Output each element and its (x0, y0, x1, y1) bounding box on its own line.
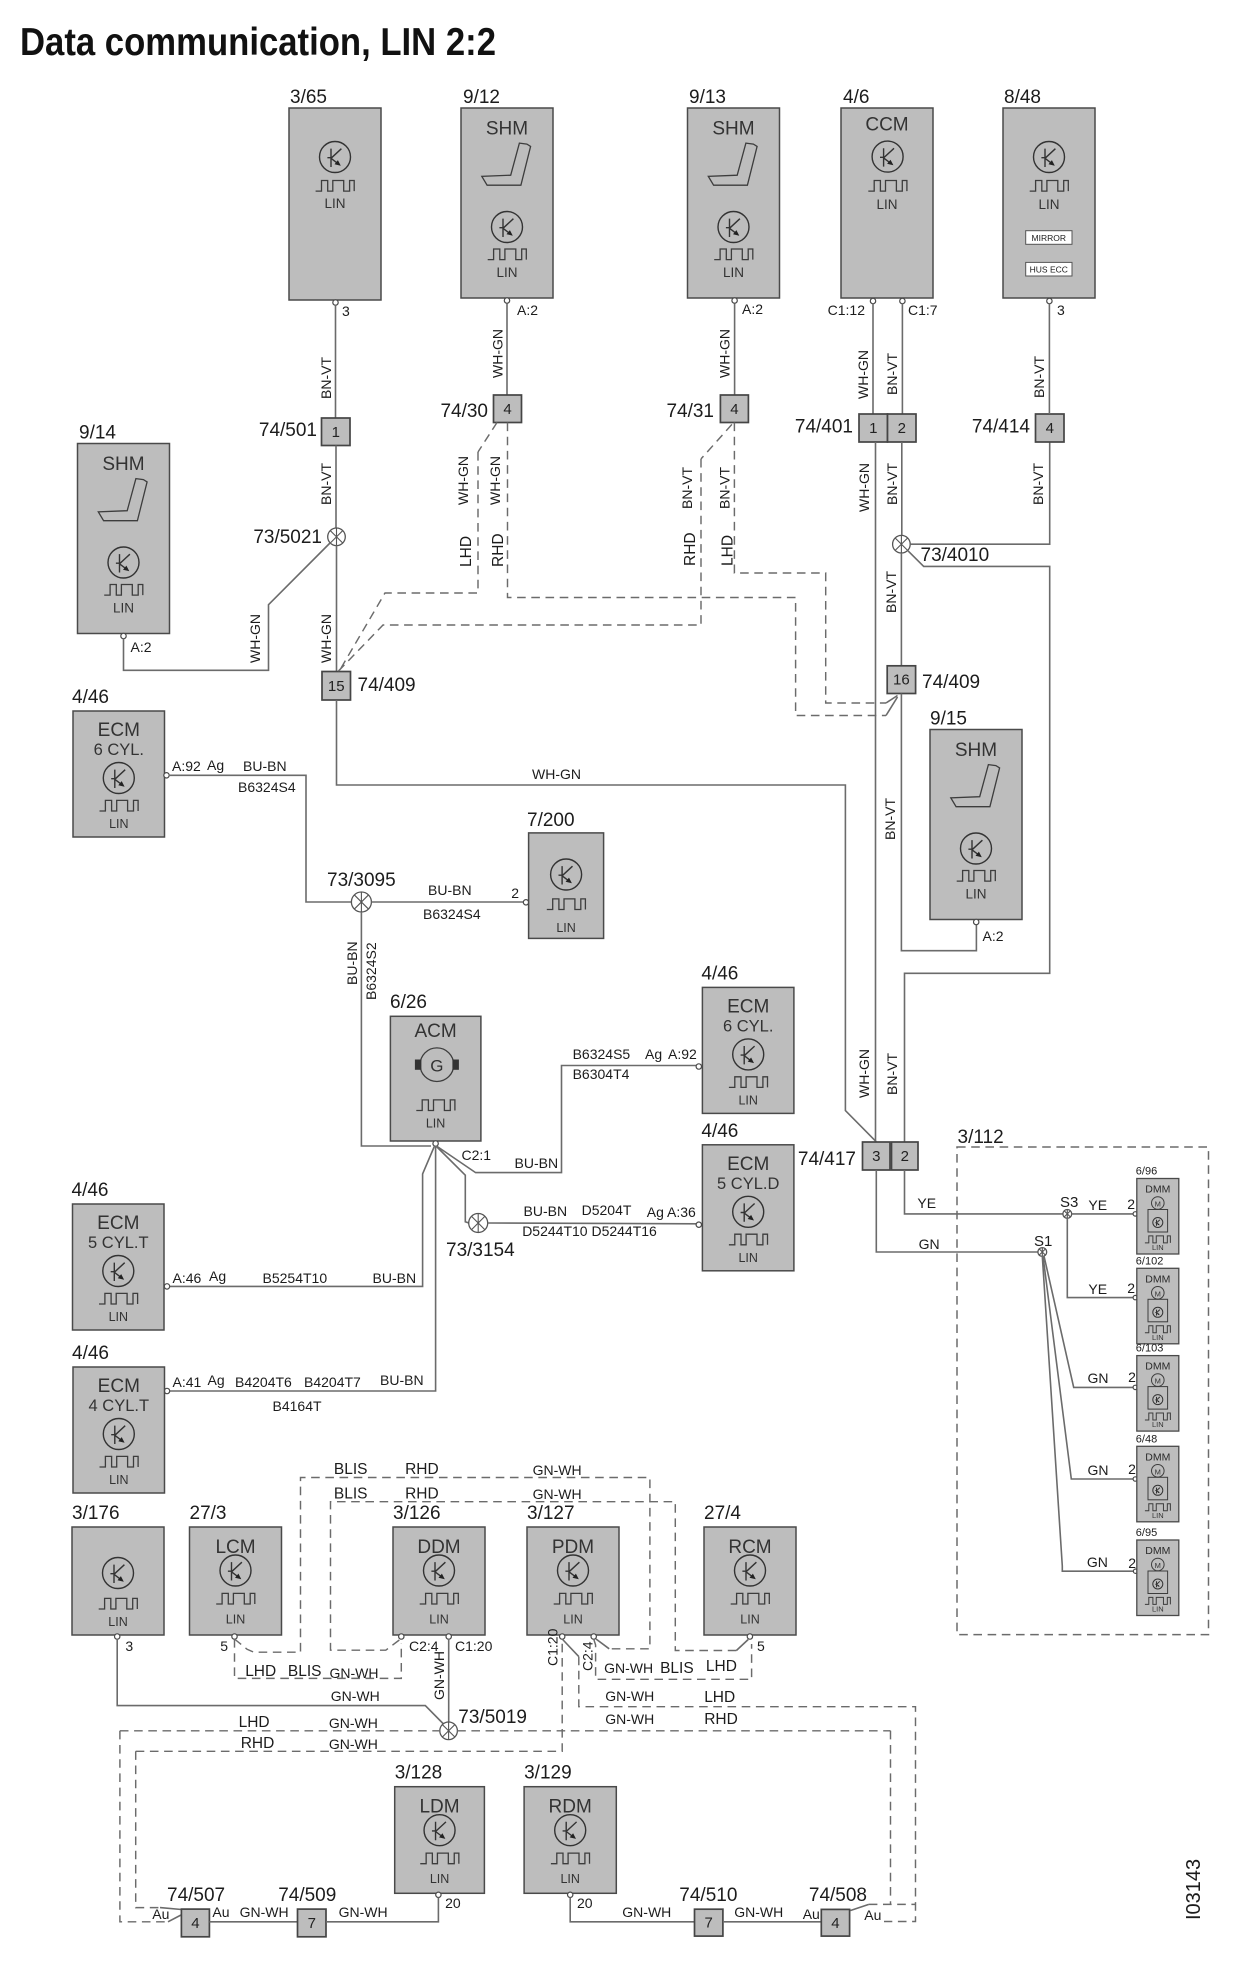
svg-text:GN-WH: GN-WH (605, 1688, 654, 1704)
svg-text:GN: GN (919, 1236, 940, 1252)
svg-text:ECM: ECM (727, 996, 769, 1017)
wire WH-GN from 9/13 A:2 to connector 74/31 (717, 301, 764, 395)
dashed wire RHD GN-WH lower-left row from 74/507 to PDM C1:20 (136, 1639, 563, 1752)
svg-text:74/409: 74/409 (358, 675, 416, 696)
dashed wire BLIS RHD GN-WH (upper row) LCM 5 to PDM C2:4 (235, 1461, 650, 1652)
svg-text:2: 2 (1128, 1555, 1136, 1571)
splice S3 (1060, 1194, 1078, 1218)
svg-text:Ag: Ag (207, 757, 224, 773)
svg-text:BN-VT: BN-VT (882, 798, 898, 840)
svg-text:73/3154: 73/3154 (446, 1240, 515, 1261)
svg-text:WH-GN: WH-GN (855, 350, 871, 399)
svg-text:4/46: 4/46 (72, 1180, 109, 1201)
svg-text:74/414: 74/414 (972, 417, 1031, 438)
module 3/129 RDM (524, 1763, 616, 1894)
svg-text:WH-GN: WH-GN (318, 614, 334, 663)
svg-text:2: 2 (1128, 1369, 1136, 1385)
svg-text:2: 2 (901, 1148, 909, 1165)
svg-text:BN-VT: BN-VT (1030, 463, 1046, 505)
wire GN-WH from 74/509 to LDM pin 20 (326, 1898, 438, 1922)
label Au right of 74/508 + leader (864, 1907, 881, 1923)
module 9/14 SHM (seat heating module) (78, 423, 170, 639)
svg-text:LHD: LHD (704, 1689, 735, 1706)
pins C2:4 and C1:20 of DDM (399, 1634, 493, 1654)
svg-text:DMM: DMM (1145, 1273, 1170, 1285)
svg-text:74/510: 74/510 (679, 1885, 737, 1906)
svg-text:BLIS: BLIS (660, 1660, 694, 1677)
svg-text:LIN: LIN (1152, 1333, 1164, 1342)
svg-text:9/12: 9/12 (463, 87, 500, 108)
svg-text:LIN: LIN (965, 887, 986, 902)
module 3/127 PDM (passenger door module) (527, 1503, 619, 1635)
dashed wire BN-VT RHD from 74/31 to 74/409 pin 15 (338, 424, 732, 671)
svg-text:B6324S2: B6324S2 (363, 942, 379, 1000)
wire GN S1 to DMM 6/48 (1043, 1256, 1138, 1481)
svg-text:2: 2 (511, 885, 519, 901)
svg-text:LIN: LIN (113, 601, 134, 616)
wire labels at ECM 4 CYL.T A:41 (173, 1372, 424, 1414)
wire WH-GN from 9/14 A:2 to splice 73/5021 (124, 543, 331, 671)
svg-text:M: M (1155, 1561, 1161, 1570)
svg-text:4/6: 4/6 (843, 87, 869, 108)
svg-text:A:2: A:2 (517, 302, 538, 318)
svg-text:16: 16 (893, 672, 910, 689)
svg-text:3/126: 3/126 (393, 1503, 441, 1524)
dashed wire BLIS RHD GN-WH (lower row) DDM C2:4 to RCM 5 (331, 1486, 749, 1651)
dashed wire GN-WH LHD upper-right row from PDM C1:20 to 74/508 (562, 1639, 915, 1922)
svg-text:G: G (430, 1057, 443, 1076)
svg-text:SHM: SHM (712, 119, 754, 140)
svg-text:74/417: 74/417 (798, 1149, 856, 1170)
module 6/96 DMM (door mirror module) (1136, 1166, 1179, 1255)
svg-text:9/14: 9/14 (79, 423, 116, 444)
svg-text:Ag: Ag (209, 1268, 226, 1284)
svg-text:4/46: 4/46 (701, 963, 738, 984)
svg-text:BN-VT: BN-VT (884, 353, 900, 395)
wire YE S3 to DMM 6/96 (1072, 1196, 1138, 1216)
svg-text:DMM: DMM (1145, 1361, 1170, 1373)
svg-text:BN-VT: BN-VT (884, 1053, 900, 1095)
svg-text:WH-GN: WH-GN (487, 456, 503, 505)
wire WH-GN from CCM C1:12 to 74/401 pin 1 (828, 302, 873, 414)
svg-text:ECM: ECM (97, 1213, 139, 1234)
module 6/48 DMM (1136, 1433, 1179, 1522)
splice 73/3095 (327, 870, 396, 912)
svg-text:BN-VT: BN-VT (1031, 356, 1047, 398)
svg-text:GN: GN (1088, 1370, 1109, 1386)
svg-text:DMM: DMM (1145, 1451, 1170, 1463)
svg-text:1: 1 (332, 424, 340, 441)
wire BU-BN splice 73/3095 down to ACM (344, 912, 431, 1146)
wire GN S1 to DMM 6/103 (1044, 1256, 1138, 1390)
svg-text:1: 1 (869, 420, 877, 437)
svg-text:GN-WH: GN-WH (533, 1486, 582, 1502)
svg-text:GN-WH: GN-WH (533, 1462, 582, 1478)
svg-text:GN-WH: GN-WH (331, 1688, 380, 1704)
svg-text:LIN: LIN (429, 1613, 448, 1627)
wire GN-WH from 74/510 to 74/508 (723, 1904, 821, 1922)
svg-text:20: 20 (445, 1895, 461, 1911)
svg-text:BU-BN: BU-BN (373, 1270, 417, 1286)
svg-text:BU-BN: BU-BN (344, 941, 360, 985)
svg-text:3/65: 3/65 (290, 87, 327, 108)
svg-text:7: 7 (705, 1915, 713, 1932)
svg-text:6 CYL.: 6 CYL. (723, 1017, 773, 1035)
svg-text:LHD: LHD (239, 1714, 270, 1731)
svg-text:BLIS: BLIS (334, 1461, 368, 1478)
svg-text:M: M (1155, 1200, 1161, 1209)
dashed boundary box 3/112 (957, 1127, 1209, 1635)
svg-text:LHD: LHD (458, 536, 475, 567)
pin 5 of LCM (220, 1634, 237, 1654)
svg-text:LIN: LIN (1152, 1243, 1164, 1252)
svg-text:SHM: SHM (102, 454, 144, 475)
svg-text:A:2: A:2 (131, 639, 152, 655)
wire from ACM to splice 73/3154 (436, 1146, 469, 1223)
module 4/46 ECM 6 CYL. (right) (701, 963, 794, 1113)
svg-text:4: 4 (503, 401, 511, 418)
svg-text:A:2: A:2 (742, 301, 763, 317)
svg-text:RHD: RHD (405, 1486, 439, 1503)
svg-text:HUS ECC: HUS ECC (1030, 265, 1068, 275)
svg-text:WH-GN: WH-GN (455, 456, 471, 505)
connector 74/30 pin 4 (440, 395, 521, 423)
dashed wire GN-WH BLIS LHD from PDM C2:4 to RCM 5 (594, 1639, 752, 1679)
wire GN-WH solid from DDM C1:20 to splice 73/5019 (431, 1639, 449, 1722)
svg-text:LIN: LIN (426, 1117, 445, 1131)
svg-text:B6324S4: B6324S4 (423, 906, 481, 922)
connector 74/507 pin 4 (167, 1885, 225, 1937)
connector 74/409 pin 16 (887, 666, 980, 694)
wire BN-VT splice 73/4010 to 74/414 pin 4 (910, 442, 1049, 544)
svg-text:LIN: LIN (556, 921, 575, 935)
svg-text:GN: GN (1088, 1462, 1109, 1478)
svg-text:5: 5 (757, 1638, 765, 1654)
svg-text:C1:7: C1:7 (908, 302, 938, 318)
svg-text:WH-GN: WH-GN (856, 463, 872, 512)
svg-text:LIN: LIN (876, 197, 897, 212)
svg-text:LIN: LIN (430, 1872, 449, 1886)
svg-text:GN-WH: GN-WH (339, 1904, 388, 1920)
svg-text:4 CYL.T: 4 CYL.T (89, 1397, 150, 1415)
module 3/176 (LIN node) (72, 1503, 164, 1635)
splice 73/3154 (446, 1214, 515, 1262)
svg-text:5 CYL.T: 5 CYL.T (88, 1234, 149, 1252)
svg-text:7: 7 (308, 1915, 316, 1932)
dashed wire LHD left leg down to 74/507 (120, 1731, 181, 1922)
svg-text:M: M (1155, 1289, 1161, 1298)
svg-text:GN-WH: GN-WH (240, 1904, 289, 1920)
svg-text:WH-GN: WH-GN (856, 1049, 872, 1098)
svg-text:2: 2 (1128, 1461, 1136, 1477)
wire BU-BN from ACM to ECM 4 CYL.T (164, 1146, 435, 1394)
svg-text:74/30: 74/30 (440, 401, 488, 422)
module 9/12 SHM (seat heating module) (461, 87, 553, 303)
svg-text:Au: Au (803, 1906, 820, 1922)
svg-text:LIN: LIN (496, 265, 517, 280)
svg-text:74/509: 74/509 (278, 1885, 336, 1906)
svg-text:Ag: Ag (208, 1372, 225, 1388)
svg-text:Au: Au (212, 1904, 229, 1920)
wire WH-GN splice 73/5021 to connector 74/409 pin 15 (318, 546, 337, 672)
svg-text:4/46: 4/46 (72, 1343, 109, 1364)
pin 3 of 3/176 (115, 1634, 134, 1654)
svg-text:BU-BN: BU-BN (515, 1155, 559, 1171)
svg-text:BN-VT: BN-VT (884, 463, 900, 505)
svg-text:DMM: DMM (1145, 1545, 1170, 1557)
svg-text:ECM: ECM (727, 1154, 769, 1175)
svg-text:27/3: 27/3 (190, 1503, 227, 1524)
wire labels at ECM 5 CYL.T A:46 (173, 1268, 417, 1286)
svg-text:LIN: LIN (1038, 197, 1059, 212)
splice S1 (1034, 1233, 1052, 1256)
svg-text:RHD: RHD (704, 1711, 738, 1728)
wire BN-VT from CCM C1:7 to 74/401 pin 2 (884, 302, 938, 414)
svg-text:D5244T10 D5244T16: D5244T10 D5244T16 (522, 1223, 657, 1239)
svg-text:74/501: 74/501 (259, 420, 317, 441)
wire BU-BN splice 73/3095 to module 7/200 pin 2 (371, 882, 528, 922)
svg-text:A:2: A:2 (983, 928, 1004, 944)
wire BN-VT from 74/401 pin 2 to splice 73/4010 (884, 442, 902, 535)
module 8/48 (mirror / HUS ECC LIN node) (1003, 87, 1095, 304)
svg-text:WH-GN: WH-GN (717, 329, 733, 378)
dashed wire LHD GN-WH main row through splice 73/5019 (120, 1711, 891, 1731)
svg-text:27/4: 27/4 (704, 1503, 741, 1524)
svg-text:3/127: 3/127 (527, 1503, 575, 1524)
wire WH-GN from 74/409 down and across to 74/417 pin 3 (337, 700, 877, 1142)
wire GN-WH from 74/507 to 74/509 (209, 1904, 297, 1922)
svg-text:BLIS: BLIS (288, 1663, 322, 1680)
svg-text:I03143: I03143 (1183, 1859, 1205, 1920)
svg-text:D5204T: D5204T (582, 1202, 632, 1218)
svg-text:WH-GN: WH-GN (532, 766, 581, 782)
svg-text:LIN: LIN (108, 1615, 127, 1629)
connector 74/417 pins 3 and 2 (798, 1142, 918, 1170)
svg-text:LHD: LHD (720, 535, 737, 566)
svg-text:B6304T4: B6304T4 (573, 1066, 630, 1082)
svg-text:7/200: 7/200 (527, 810, 575, 831)
svg-text:Au: Au (864, 1907, 881, 1923)
svg-text:RHD: RHD (241, 1735, 275, 1752)
svg-text:BN-VT: BN-VT (717, 467, 733, 509)
svg-text:8/48: 8/48 (1004, 87, 1041, 108)
dashed wire BN-VT LHD from 74/31 to 74/409 pin 16 (717, 423, 898, 704)
svg-text:LIN: LIN (324, 196, 345, 211)
pin 20 of LDM (436, 1892, 461, 1911)
svg-text:73/5021: 73/5021 (253, 527, 322, 548)
svg-text:GN-WH: GN-WH (734, 1904, 783, 1920)
svg-text:A:92: A:92 (172, 758, 201, 774)
wire GN from 74/417 pin 3 to splice S1 (876, 1170, 1038, 1252)
module 27/3 LCM (190, 1503, 282, 1635)
svg-text:73/4010: 73/4010 (921, 545, 990, 566)
svg-text:LIN: LIN (109, 817, 128, 831)
svg-text:B4204T7: B4204T7 (304, 1374, 361, 1390)
svg-text:LIN: LIN (226, 1613, 245, 1627)
svg-text:YE: YE (1088, 1281, 1107, 1297)
svg-text:BN-VT: BN-VT (318, 357, 334, 399)
svg-text:3: 3 (872, 1148, 880, 1165)
module 4/46 ECM 5 CYL.D (701, 1121, 794, 1271)
svg-text:C1:12: C1:12 (828, 302, 866, 318)
svg-text:M: M (1155, 1377, 1161, 1386)
connector 74/509 pin 7 (278, 1885, 336, 1937)
svg-text:3: 3 (342, 303, 350, 319)
module 4/46 ECM 6 CYL. (left) (72, 687, 165, 837)
connector 74/31 pin 4 (666, 395, 748, 423)
wire BN-VT from 74/409 pin 16 to 9/15 A:2 (882, 694, 976, 951)
svg-text:GN: GN (1087, 1554, 1108, 1570)
svg-text:B4204T6: B4204T6 (235, 1374, 292, 1390)
svg-text:2: 2 (1127, 1280, 1135, 1296)
connector 74/508 pin 4 (809, 1885, 867, 1936)
svg-text:6/102: 6/102 (1136, 1255, 1164, 1267)
svg-text:A:92: A:92 (668, 1046, 697, 1062)
svg-text:Ag: Ag (645, 1046, 662, 1062)
svg-text:3: 3 (1057, 302, 1065, 318)
svg-text:GN-WH: GN-WH (622, 1904, 671, 1920)
wire BU-BN from ACM C2:1 to ECM 6 CYL. (right) (437, 1046, 702, 1173)
module 4/46 ECM 4 CYL.T (72, 1343, 165, 1493)
svg-text:BLIS: BLIS (334, 1486, 368, 1503)
svg-text:GN-WH: GN-WH (329, 1715, 378, 1731)
svg-text:GN-WH: GN-WH (605, 1711, 654, 1727)
svg-text:9/15: 9/15 (930, 709, 967, 730)
module 6/26 ACM (motor, LIN) (390, 992, 481, 1146)
svg-text:DMM: DMM (1145, 1184, 1170, 1196)
svg-text:M: M (1155, 1467, 1161, 1476)
svg-text:LIN: LIN (1152, 1420, 1164, 1429)
dashed wire LHD BLIS GN-WH from LCM 5 to DDM C2:4 (235, 1639, 402, 1681)
svg-text:GN-WH: GN-WH (604, 1660, 653, 1676)
svg-text:BU-BN: BU-BN (524, 1203, 568, 1219)
svg-text:BU-BN: BU-BN (380, 1372, 424, 1388)
svg-text:Data communication, LIN 2:2: Data communication, LIN 2:2 (20, 21, 496, 64)
wire WH-GN from 9/12 A:2 to connector 74/30 (490, 302, 539, 395)
wire BN-VT branch from 73/4010 to 74/417 pin 2 (884, 550, 1050, 1142)
svg-text:6/103: 6/103 (1136, 1343, 1164, 1355)
pin 5 of RCM (747, 1634, 765, 1654)
svg-text:C2:1: C2:1 (462, 1147, 492, 1163)
svg-text:LHD: LHD (706, 1658, 737, 1675)
svg-text:BU-BN: BU-BN (428, 882, 472, 898)
wire WH-GN from 74/401 pin 1 down to 74/417 pin 3 (856, 442, 876, 1142)
svg-text:3/176: 3/176 (72, 1503, 120, 1524)
svg-text:74/401: 74/401 (795, 417, 853, 438)
svg-text:ECM: ECM (98, 1376, 140, 1397)
svg-text:C1:20: C1:20 (455, 1638, 493, 1654)
svg-text:5: 5 (220, 1638, 228, 1654)
wire BN-VT from splice 73/4010 down through 74/409 pin 16 (883, 553, 901, 666)
svg-text:WH-GN: WH-GN (247, 614, 263, 663)
splice 73/5019 (440, 1707, 527, 1740)
svg-text:73/5019: 73/5019 (458, 1707, 527, 1728)
wire BN-VT from 8/48 pin 3 to 74/414 (1031, 302, 1065, 414)
svg-text:SHM: SHM (955, 740, 997, 761)
wire YE from 74/417 pin 2 to splice S3 (905, 1170, 1064, 1214)
svg-text:LIN: LIN (738, 1093, 757, 1107)
wire BU-BN from ACM to ECM 5 CYL.T (164, 1146, 434, 1289)
dashed wire RHD right leg from main row to 74/508 (851, 1731, 916, 1911)
svg-text:6/48: 6/48 (1136, 1433, 1157, 1445)
svg-text:S1: S1 (1034, 1233, 1052, 1250)
svg-text:WH-GN: WH-GN (490, 329, 506, 378)
svg-text:4: 4 (191, 1915, 199, 1932)
svg-text:6 CYL.: 6 CYL. (94, 741, 144, 759)
module 9/15 SHM (seat heating module) (930, 709, 1022, 925)
module 9/13 SHM (seat heating module) (688, 87, 780, 303)
splice 73/5021 (253, 527, 345, 548)
svg-text:6/95: 6/95 (1136, 1527, 1157, 1539)
pin 20 of RDM (568, 1892, 593, 1911)
splice 73/4010 (893, 535, 990, 566)
wire YE S3 to DMM 6/102 (1067, 1218, 1137, 1300)
svg-text:3/128: 3/128 (395, 1763, 443, 1784)
svg-text:LIN: LIN (1152, 1605, 1164, 1614)
svg-text:73/3095: 73/3095 (327, 870, 396, 891)
svg-text:74/507: 74/507 (167, 1885, 225, 1906)
svg-text:A:41: A:41 (173, 1374, 202, 1390)
pins C1:20 and C2:4 of PDM (545, 1628, 597, 1671)
svg-text:ECM: ECM (98, 720, 140, 741)
module 3/126 DDM (driver door module) (393, 1503, 485, 1635)
svg-text:4: 4 (730, 401, 738, 418)
wire GN-WH from RDM pin 20 to 74/510 (570, 1898, 694, 1922)
wire GN S1 to DMM 6/95 (1042, 1256, 1138, 1573)
wire BU-BN splice 73/3154 to ECM 5 CYL.D A:36 (488, 1202, 702, 1239)
module 4/46 ECM 5 CYL.T (72, 1180, 165, 1330)
svg-text:S3: S3 (1060, 1194, 1078, 1211)
svg-text:3: 3 (125, 1638, 133, 1654)
svg-text:5 CYL.D: 5 CYL.D (717, 1175, 779, 1193)
module 3/65 (LIN node) (289, 87, 381, 305)
svg-text:4/46: 4/46 (701, 1121, 738, 1142)
dashed wire RHD left leg down to 74/507 (136, 1751, 182, 1909)
module 6/102 DMM (1136, 1255, 1179, 1344)
svg-text:LIN: LIN (109, 1473, 128, 1487)
svg-text:3/112: 3/112 (958, 1127, 1004, 1148)
svg-text:RHD: RHD (405, 1461, 439, 1478)
svg-text:74/31: 74/31 (666, 401, 714, 422)
connector 74/401 pins 1 and 2 (795, 414, 916, 442)
svg-text:BU-BN: BU-BN (243, 758, 287, 774)
wire BU-BN from ECM 6CYL A:92 to splice 73/3095 (164, 757, 352, 902)
module 4/6 CCM (climate control module) (841, 87, 933, 304)
svg-text:Au: Au (152, 1906, 169, 1922)
svg-text:MIRROR: MIRROR (1032, 233, 1066, 243)
wire BN-VT 74/501 to splice 73/5021 (318, 446, 336, 529)
svg-text:20: 20 (577, 1895, 593, 1911)
svg-text:C1:20: C1:20 (545, 1628, 561, 1666)
module 3/128 LDM (395, 1763, 485, 1894)
wire GN-WH solid from 3/176 pin 3 to splice 73/5019 (117, 1639, 444, 1725)
svg-text:3/129: 3/129 (524, 1763, 572, 1784)
connector 74/409 pin 15 (322, 672, 416, 701)
svg-text:LIN: LIN (109, 1310, 128, 1324)
svg-text:BN-VT: BN-VT (318, 463, 334, 505)
svg-text:6/96: 6/96 (1136, 1166, 1157, 1178)
svg-text:C2:4: C2:4 (580, 1641, 596, 1671)
svg-text:6/26: 6/26 (390, 992, 427, 1013)
connector 74/510 pin 7 (679, 1885, 737, 1936)
svg-text:LIN: LIN (740, 1613, 759, 1627)
svg-text:BN-VT: BN-VT (679, 467, 695, 509)
svg-text:4: 4 (1046, 420, 1054, 437)
svg-text:YE: YE (917, 1195, 936, 1211)
connector 74/414 pin 4 (972, 414, 1064, 442)
svg-text:2: 2 (898, 420, 906, 437)
svg-text:ACM: ACM (414, 1021, 456, 1042)
